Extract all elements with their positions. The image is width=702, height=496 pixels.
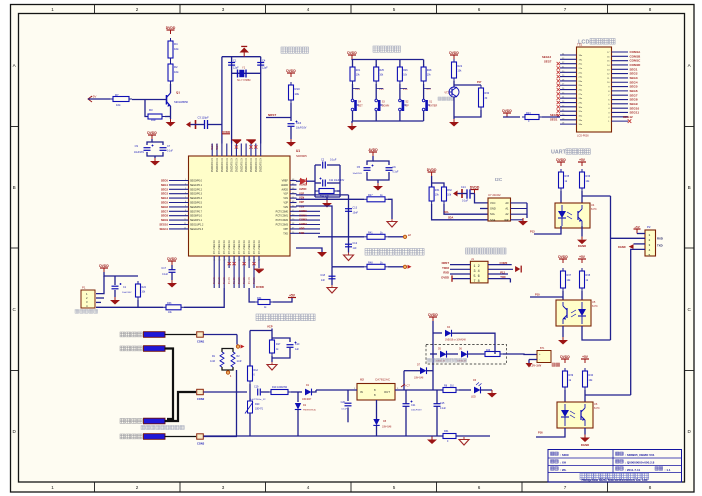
svg-text:100uF/25V: 100uF/25V <box>411 410 422 412</box>
capacitor C18 <box>329 276 336 279</box>
wire psu bottom rail <box>204 435 491 437</box>
wire R39 to opto3 <box>564 390 566 402</box>
label external power 2 <box>120 346 142 351</box>
svg-text:0.1uF: 0.1uF <box>462 200 469 203</box>
svg-text:10uF/16V: 10uF/16V <box>134 152 144 154</box>
svg-text:: SD8905_DEMO V01: : SD8905_DEMO V01 <box>625 453 655 457</box>
wire <box>352 84 354 99</box>
resistor R32 <box>442 184 447 204</box>
svg-text:RXD: RXD <box>443 271 449 275</box>
svg-text:VCP: VCP <box>267 325 273 329</box>
svg-text:GND: GND <box>490 207 496 211</box>
svg-text:U4: U4 <box>591 203 595 207</box>
svg-text:V2N: V2N <box>283 206 288 209</box>
transistor <box>449 87 459 97</box>
terminal labels <box>197 340 205 446</box>
svg-text:C4: C4 <box>262 59 266 63</box>
svg-text:P3.1/SEG/XX: P3.1/SEG/XX <box>224 240 226 254</box>
svg-text:R35: R35 <box>565 175 570 178</box>
optocoupler U5 <box>556 300 591 326</box>
svg-text:CON3: CON3 <box>197 442 205 446</box>
lcd right net labels <box>623 50 641 119</box>
power DVDD <box>428 313 438 321</box>
svg-text:8: 8 <box>649 485 652 490</box>
J1 pin dots <box>474 265 480 284</box>
resistor R24 <box>136 281 141 300</box>
svg-text:PCT/COM3: PCT/COM3 <box>276 224 289 227</box>
svg-text:CON2: CON2 <box>197 397 205 401</box>
battery BT1 <box>537 351 551 363</box>
svg-text:R12: R12 <box>254 369 259 372</box>
wire <box>373 161 389 165</box>
capacitor C14 <box>466 189 468 198</box>
svg-text:TS1: TS1 <box>577 43 583 47</box>
svg-text:R7: R7 <box>115 93 119 97</box>
power DVDD <box>502 109 512 117</box>
wire <box>375 111 377 121</box>
wire bar1 to terminal <box>165 334 197 336</box>
svg-text:SEG6: SEG6 <box>161 205 169 209</box>
svg-text:P2: P2 <box>647 225 651 229</box>
opto3 transistor (right) <box>580 410 582 420</box>
svg-text:R38: R38 <box>586 274 591 277</box>
port arrow <box>88 96 92 102</box>
svg-text:SEG2/P0.2: SEG2/P0.2 <box>190 188 203 191</box>
svg-text:SEG2: SEG2 <box>161 187 169 191</box>
svg-text:4: 4 <box>307 7 310 12</box>
wire <box>307 180 316 182</box>
power DVDD <box>470 185 480 193</box>
external power terminal bar 2 <box>144 346 166 352</box>
ground (mcu top a) <box>232 139 242 144</box>
svg-text:5: 5 <box>649 254 651 257</box>
varistor R20 <box>248 401 253 413</box>
ground arrow (battery) <box>526 363 533 368</box>
svg-text:AVDD: AVDD <box>368 148 378 152</box>
svg-text:P1.1/X: P1.1/X <box>219 277 221 284</box>
svg-text:A1: A1 <box>505 207 509 211</box>
wire C12 vertical <box>348 237 350 253</box>
svg-text:U2: U2 <box>360 378 364 382</box>
wire DVDD to R23 <box>503 116 520 118</box>
wire P1 pin1 <box>96 276 104 294</box>
svg-text:7: 7 <box>564 485 567 490</box>
section title: voltage channel input <box>256 314 315 321</box>
wire to VCP <box>250 330 272 332</box>
optocoupler U4 <box>555 203 590 228</box>
wire opto1 emitter <box>581 226 583 237</box>
svg-text:10D471: 10D471 <box>255 409 264 411</box>
wire <box>196 124 205 126</box>
ground (C16) <box>286 139 296 147</box>
svg-text:TXD: TXD <box>657 244 663 248</box>
svg-text:B: B <box>13 185 16 190</box>
label external power 1 <box>120 332 142 337</box>
wire opto1 out <box>582 195 611 197</box>
wire J1 pin8 down <box>509 279 511 283</box>
wire P10 into opto2 <box>530 296 563 298</box>
svg-text:A0: A0 <box>505 201 509 205</box>
wire to C10 <box>272 338 290 342</box>
wire P2 pin4 down <box>631 249 645 395</box>
power bar (J1 DVDD) <box>451 275 453 281</box>
wire Q1 emitter <box>170 106 172 119</box>
battery CJK note <box>552 363 560 366</box>
svg-text:P6KE6V8CA: P6KE6V8CA <box>303 409 316 412</box>
company name (CJK) <box>580 473 649 479</box>
wire <box>399 60 401 68</box>
resistor R36 <box>580 169 585 191</box>
svg-text:SEG8/P1.0: SEG8/P1.0 <box>190 215 203 218</box>
svg-text:COM0: COM0 <box>299 209 307 213</box>
svg-text:3: 3 <box>222 485 225 490</box>
svg-text:Q1: Q1 <box>176 91 180 95</box>
ground (mcu top b) <box>246 139 256 144</box>
svg-text:SET: SET <box>358 105 363 108</box>
svg-text:P1.5/X: P1.5/X <box>239 277 241 284</box>
svg-text:TXD: TXD <box>500 275 505 279</box>
capacitor C21 <box>403 401 413 407</box>
svg-text:R34: R34 <box>257 297 262 300</box>
svg-text:DVDD: DVDD <box>256 285 264 289</box>
svg-text:SDA: SDA <box>448 217 453 220</box>
opto1 led <box>558 211 566 218</box>
svg-text:1: 1 <box>649 234 651 237</box>
wire divider top rail (black) <box>222 349 233 353</box>
svg-text:NRST: NRST <box>268 113 276 117</box>
no-connect lcd right bottom <box>628 119 632 123</box>
wire P2 pin1 to +5V <box>637 233 645 235</box>
svg-text:P1.7/X: P1.7/X <box>249 277 251 284</box>
resistor R26 <box>397 64 402 84</box>
svg-text:0.1uF: 0.1uF <box>167 151 173 153</box>
no-connect marks lcd left <box>557 62 560 117</box>
resistor R28 <box>421 64 426 84</box>
svg-text:3 4: 3 4 <box>474 270 480 274</box>
wire <box>375 84 377 99</box>
wire R33 to mcu pin <box>184 288 224 307</box>
resistor R4 <box>168 38 173 61</box>
svg-text:SEG5: SEG5 <box>161 201 169 205</box>
wire U3 gnd stub <box>480 208 488 210</box>
wire <box>375 60 377 68</box>
svg-text:DVDD: DVDD <box>167 257 177 261</box>
wire gnd to C3 <box>191 124 196 126</box>
pushbutton S2 <box>399 99 407 111</box>
wire rectified to U2 in <box>316 389 357 391</box>
external power terminal bar 4 <box>144 434 166 440</box>
wire D2 to rail <box>297 410 299 437</box>
svg-text:SEG4/P0.4: SEG4/P0.4 <box>190 197 203 200</box>
svg-text:R20: R20 <box>255 403 260 406</box>
wire agnd <box>296 248 322 252</box>
svg-text:P1.4/X: P1.4/X <box>234 277 236 284</box>
ground (C5 C6) <box>373 183 383 191</box>
svg-text:5: 5 <box>393 7 396 12</box>
svg-text:6: 6 <box>478 485 481 490</box>
svg-text:VCC: VCC <box>490 201 496 205</box>
svg-text:DVDD: DVDD <box>428 313 438 317</box>
svg-text:DVDD: DVDD <box>427 168 437 172</box>
svg-text:P13: P13 <box>530 230 535 234</box>
wire D8 to rail <box>376 425 378 436</box>
svg-text:10k: 10k <box>174 70 179 74</box>
wire D7 to +5V rail <box>403 371 405 390</box>
wire XI vertical <box>231 57 233 144</box>
svg-text:C11 10uF/16V: C11 10uF/16V <box>329 179 345 182</box>
resistor R37 <box>561 268 566 291</box>
lcd left pin wires <box>560 55 577 124</box>
external power terminal bar 3 <box>144 418 166 424</box>
wire AC thick 1 <box>165 349 174 420</box>
resistor R25 <box>374 64 379 84</box>
wire NRST <box>266 117 291 119</box>
svg-text:5: 5 <box>393 485 396 490</box>
wire crystal top rail <box>222 56 261 58</box>
wire <box>114 290 116 297</box>
svg-text:617C: 617C <box>592 305 598 308</box>
wire <box>431 176 433 187</box>
svg-text:DVDD/P2.0/X: DVDD/P2.0/X <box>232 158 234 173</box>
analog ground (C18) <box>327 285 337 293</box>
wire osc enable vertical <box>221 57 223 144</box>
svg-text:SEG3/P0.3: SEG3/P0.3 <box>190 193 203 196</box>
svg-text:: SDIC: : SDIC <box>560 453 570 457</box>
wire opto2 emitter <box>562 326 564 337</box>
wire to C20 <box>347 390 349 401</box>
wire <box>352 111 354 121</box>
svg-text:SEG12: SEG12 <box>623 115 633 119</box>
resistor R34 <box>255 300 273 305</box>
svg-text:U6: U6 <box>594 402 598 406</box>
svg-text:VPP: VPP <box>299 227 305 231</box>
resistor R10 <box>289 82 294 103</box>
svg-text:0.1uF: 0.1uF <box>440 408 446 410</box>
wire V2P down <box>296 206 332 267</box>
svg-text:SEG10/P1.2: SEG10/P1.2 <box>190 224 204 227</box>
svg-text:R10: R10 <box>295 87 301 91</box>
wire battery minus <box>529 359 537 361</box>
svg-text:R19 100R/3W: R19 100R/3W <box>272 386 288 389</box>
svg-text:C13: C13 <box>353 207 358 210</box>
svg-text:U5: U5 <box>592 300 596 304</box>
ground (C9 C7) <box>150 158 160 166</box>
svg-text:DVDD/P2.0/X: DVDD/P2.0/X <box>212 158 214 173</box>
title row 2 <box>551 460 559 463</box>
svg-text:SEG5/P0.5: SEG5/P0.5 <box>190 202 203 205</box>
svg-text:P17: P17 <box>477 81 482 84</box>
svg-text:DVDD/P2.0/X: DVDD/P2.0/X <box>236 158 238 173</box>
svg-text:P3.1/SEG/XX: P3.1/SEG/XX <box>244 240 246 254</box>
ground (vref) <box>322 200 332 208</box>
wire R49 out <box>503 353 507 355</box>
no-connect marks mcu top <box>235 145 258 148</box>
wire <box>327 164 340 166</box>
wire +5V to R7 <box>88 98 110 100</box>
wire XO vertical <box>260 57 262 144</box>
svg-text:C9: C9 <box>135 144 139 148</box>
wire <box>399 84 401 99</box>
resistor R12 <box>248 363 253 384</box>
wire to ground <box>154 156 156 158</box>
svg-text:R17: R17 <box>276 343 281 346</box>
svg-text:SEG10: SEG10 <box>159 223 168 227</box>
svg-text:R40: R40 <box>589 374 594 377</box>
wire R8 to LED <box>459 389 471 391</box>
wire D7 left <box>404 370 420 372</box>
wire C18 vertical <box>331 267 333 285</box>
wire T1 branch down <box>236 335 238 345</box>
svg-text:PCT/COM2: PCT/COM2 <box>276 219 289 222</box>
label external power 3 <box>120 419 142 424</box>
port DGND (P2 pin3) <box>629 244 634 249</box>
svg-text:7 8: 7 8 <box>474 280 480 284</box>
wire D5 to D6 <box>447 353 459 355</box>
power DVDD <box>147 131 157 139</box>
svg-text:PCT/COM1: PCT/COM1 <box>276 215 289 218</box>
wire caps to ground <box>147 152 163 156</box>
mcu top pin wires <box>212 144 261 157</box>
wire R7 to Q1 base <box>132 99 167 101</box>
svg-text:10k: 10k <box>116 103 121 107</box>
resistor R7 <box>110 97 132 102</box>
svg-text:DVDD: DVDD <box>502 109 512 113</box>
svg-text:3: 3 <box>222 7 225 12</box>
wire <box>296 180 300 182</box>
svg-text:1nF: 1nF <box>353 247 358 250</box>
svg-text:RXD: RXD <box>657 237 663 241</box>
svg-text:DVDD/P2.0/X: DVDD/P2.0/X <box>251 158 253 173</box>
wire C13 vertical <box>348 195 350 237</box>
title block lines <box>548 450 682 473</box>
P1 caption text <box>75 310 98 314</box>
pad V1 input <box>403 235 406 238</box>
svg-text:COM2: COM2 <box>299 218 307 222</box>
svg-text:SDA: SDA <box>490 218 496 222</box>
wire AVDD rail <box>367 156 373 165</box>
svg-text:R4: R4 <box>174 42 178 46</box>
svg-text:SEG9: SEG9 <box>161 218 169 222</box>
svg-text:PCT/COM0: PCT/COM0 <box>276 210 289 213</box>
svg-text:DVDD/P2.0/X: DVDD/P2.0/X <box>256 158 258 173</box>
wire R2 to Q1 collector <box>170 84 172 93</box>
pad V2 input <box>403 265 406 268</box>
svg-text:DVDD: DVDD <box>556 158 566 162</box>
wire T2 right <box>204 391 248 393</box>
svg-text:2: 2 <box>136 485 139 490</box>
ground marker (C14) <box>453 191 458 197</box>
diode D8 <box>373 419 379 425</box>
wire LED to gnd <box>481 389 493 391</box>
svg-text:SEG6/P0.6: SEG6/P0.6 <box>190 206 203 209</box>
wire R40 to opto3 <box>584 390 586 402</box>
wire <box>423 84 425 99</box>
wire <box>315 164 321 166</box>
svg-text:SCL: SCL <box>490 212 496 216</box>
svg-text:DVDD: DVDD <box>166 26 176 30</box>
wire R48 out <box>388 266 403 268</box>
mcu bottom pin labels (vertical) <box>214 277 256 284</box>
wire SDA <box>432 204 488 220</box>
svg-text:4: 4 <box>649 249 651 252</box>
wire C16 to ground <box>290 127 292 139</box>
svg-text:R30: R30 <box>485 92 490 95</box>
svg-text:1mR: 1mR <box>210 361 215 363</box>
earth ground (VCP) <box>267 362 277 370</box>
ground (keys) <box>347 123 357 131</box>
P2 pin marks <box>649 234 651 257</box>
svg-text:R24: R24 <box>142 286 147 289</box>
wire V1P row A <box>296 194 349 196</box>
svg-text:SEG7: SEG7 <box>544 60 552 64</box>
wire <box>315 182 321 184</box>
wire Q2 emitter <box>453 97 455 119</box>
svg-text:DVDD/P2.0/X: DVDD/P2.0/X <box>246 158 248 173</box>
svg-text:P16: P16 <box>538 431 543 435</box>
svg-text:SEG8: SEG8 <box>161 214 169 218</box>
svg-text:B: B <box>688 185 691 190</box>
capacitor C6 <box>386 168 393 171</box>
capacitor C20 <box>345 403 352 406</box>
capacitor C15 <box>434 404 441 407</box>
optocoupler U6 <box>557 402 593 428</box>
lcd pin numbers and names <box>562 52 610 126</box>
ground DGND (opto1) <box>577 237 587 245</box>
wire DVDD to U3 vcc <box>475 194 489 203</box>
wire D1 out <box>312 390 317 392</box>
wire V1P row B <box>296 198 364 200</box>
wire opto3 led to P16 <box>536 428 565 437</box>
svg-text:: WL: : WL <box>560 468 567 472</box>
svg-text:10N4007: 10N4007 <box>302 399 312 401</box>
wire collector to R30 <box>454 84 481 86</box>
svg-text:0.1uF: 0.1uF <box>341 409 347 411</box>
wire R41 out <box>388 236 403 238</box>
wire bottom <box>315 196 340 198</box>
capacitor C17 <box>169 270 176 273</box>
wire R36 to opto1 <box>581 191 583 203</box>
svg-text:DVDD: DVDD <box>147 131 157 135</box>
terminal T3 <box>197 434 204 439</box>
wire <box>528 360 530 364</box>
arrow (divider top) <box>241 345 245 349</box>
svg-text:617C: 617C <box>591 208 597 211</box>
svg-text:4: 4 <box>307 485 310 490</box>
wire R34 to +5V <box>273 298 292 302</box>
svg-text:S9013/8050: S9013/8050 <box>174 100 189 104</box>
svg-text:6: 6 <box>478 7 481 12</box>
svg-text:+5V: +5V <box>634 225 639 229</box>
svg-text:C1: C1 <box>233 59 237 63</box>
mcu bottom pin names (inside, vertical) <box>214 240 261 254</box>
svg-text:AVDD: AVDD <box>299 187 306 191</box>
resistor RM1 1M <box>220 352 224 367</box>
wire C15 top <box>436 390 438 404</box>
analog ground (C12) <box>344 253 354 261</box>
wire D4 to battery rail <box>452 333 496 344</box>
resistor RM2 1M <box>231 352 235 367</box>
svg-text:C17: C17 <box>161 267 166 270</box>
wire to C7 <box>152 142 163 145</box>
opto1 transistor <box>577 211 579 220</box>
svg-text:TXD2: TXD2 <box>442 266 449 270</box>
svg-text:UP: UP <box>405 105 409 108</box>
svg-text:R31: R31 <box>435 189 440 192</box>
wire <box>114 276 116 285</box>
mcu right pin wires <box>290 181 320 234</box>
pushbutton S4 <box>351 99 359 111</box>
svg-text:VT2: VT2 <box>444 92 449 95</box>
